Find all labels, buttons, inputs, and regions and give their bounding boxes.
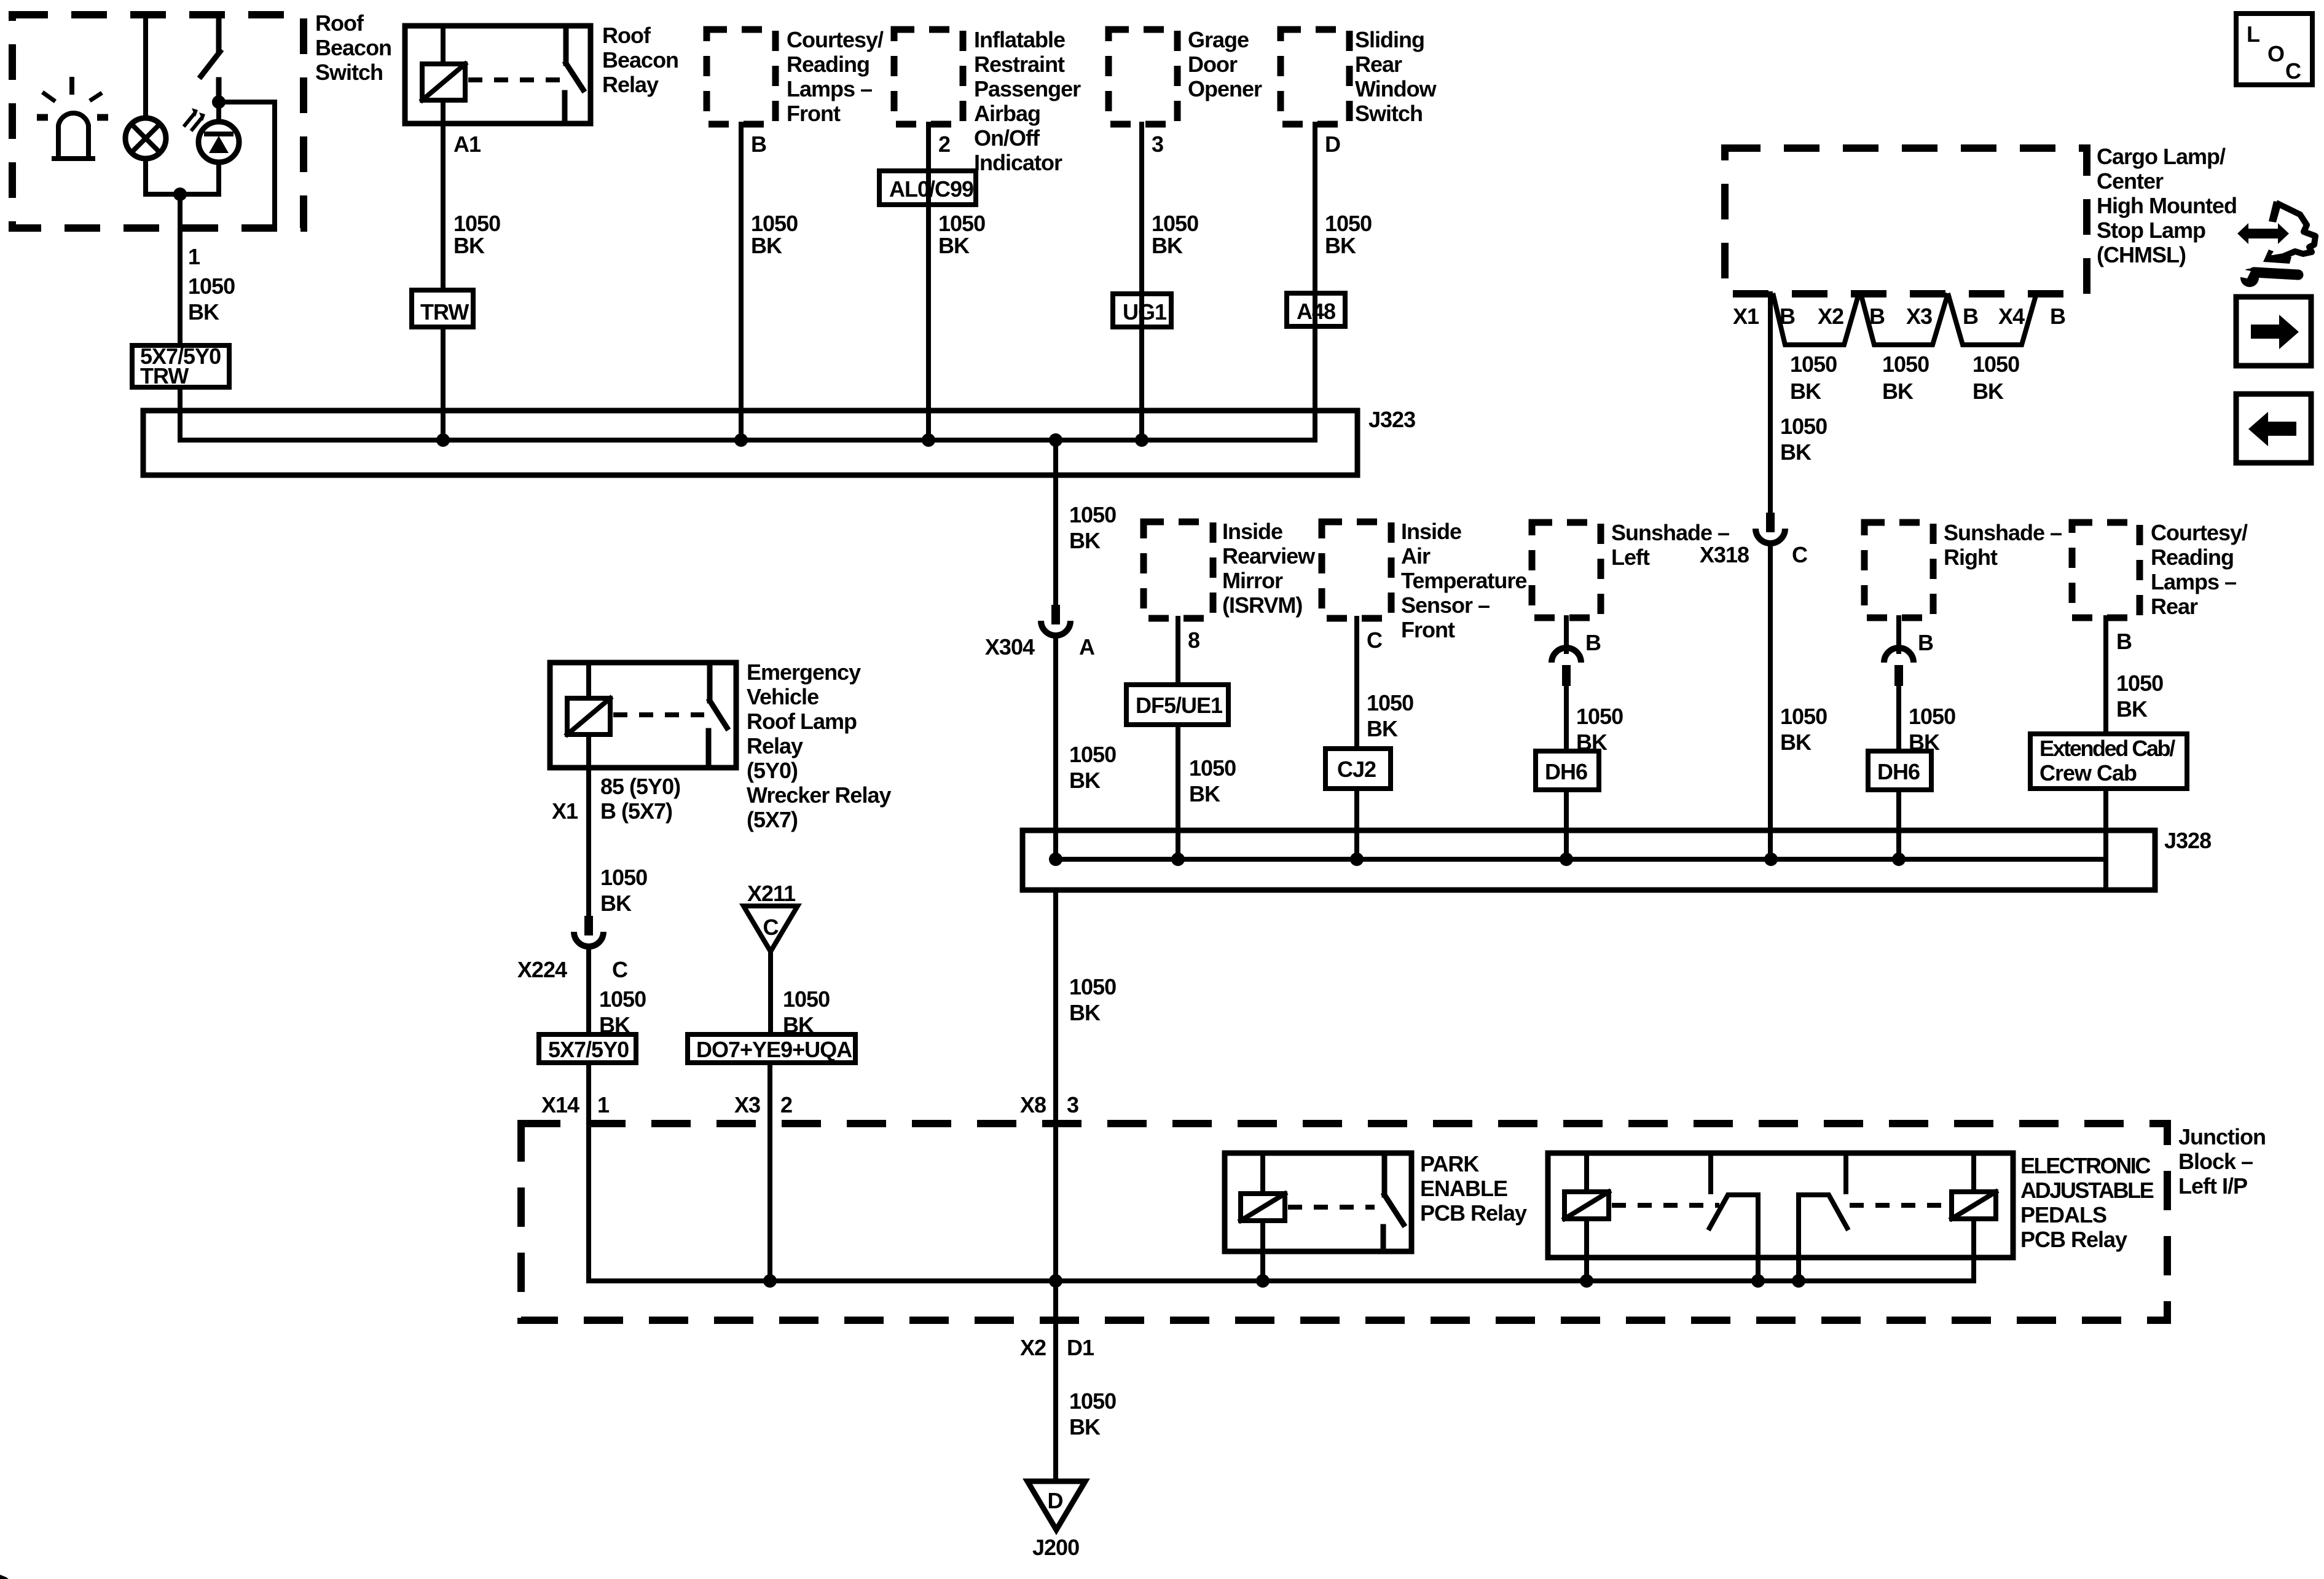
splice package box DO7+YE9+UQA — [688, 1034, 855, 1063]
svg-text:Inflatable: Inflatable — [974, 27, 1065, 52]
wire TRW to J323 — [441, 329, 446, 440]
svg-text:Inside: Inside — [1222, 519, 1282, 544]
svg-text:High Mounted: High Mounted — [2097, 193, 2237, 218]
svg-text:(CHMSL): (CHMSL) — [2097, 242, 2186, 267]
option code box UG1 — [1113, 294, 1171, 327]
svg-text:BK: BK — [600, 891, 632, 916]
wire to indicator lamp — [143, 15, 148, 118]
wire pin 85/B from relay K2 — [552, 768, 680, 916]
svg-text:1050: 1050 — [1069, 502, 1116, 527]
svg-text:Courtesy/: Courtesy/ — [787, 27, 884, 52]
connector X304 pin A — [985, 605, 1095, 660]
relay K3 coil — [1241, 1153, 1285, 1281]
svg-text:PARK: PARK — [1420, 1151, 1479, 1176]
svg-text:BK: BK — [1973, 379, 2004, 404]
svg-text:B: B — [1585, 630, 1601, 655]
svg-text:3: 3 — [1067, 1092, 1078, 1117]
svg-text:B: B — [2050, 304, 2065, 329]
relay K4 contact 2 — [1799, 1153, 1847, 1281]
svg-text:D1: D1 — [1067, 1335, 1094, 1360]
svg-text:1050: 1050 — [1325, 211, 1372, 236]
svg-text:C: C — [612, 957, 628, 982]
connector: inside air temperature sensor front — [1322, 519, 1526, 642]
wire pin B sunshade right — [1899, 618, 1933, 655]
connector: cargo lamp / CHMSL dashed enclosure — [1725, 144, 2237, 294]
svg-text:1050: 1050 — [1069, 974, 1116, 999]
svg-text:1: 1 — [188, 244, 200, 269]
svg-text:1050: 1050 — [2116, 671, 2163, 696]
node J328/X318 — [1764, 853, 1778, 866]
node J328/DH6 right — [1892, 853, 1906, 866]
connector: sliding rear window switch — [1281, 27, 1437, 126]
roof beacon switch S1 dashed enclosure — [12, 10, 391, 228]
svg-text:Switch: Switch — [315, 60, 383, 85]
svg-text:X8: X8 — [1020, 1092, 1046, 1117]
option code box DH6 (right) — [1868, 751, 1931, 790]
svg-text:B: B — [1869, 304, 1885, 329]
svg-text:X1: X1 — [552, 798, 578, 824]
svg-text:(5Y0): (5Y0) — [747, 758, 798, 783]
node J328/DF5 — [1171, 853, 1185, 866]
wire J328 to junction block pin X8-3 — [1020, 890, 1116, 1281]
J323 internal bus wire — [180, 438, 1315, 443]
svg-text:BK: BK — [1325, 233, 1356, 258]
svg-text:Rear: Rear — [1355, 52, 1402, 77]
svg-text:DF5/UE1: DF5/UE1 — [1136, 693, 1223, 718]
connector: inside rearview mirror ISRVM — [1144, 519, 1316, 618]
svg-text:1050: 1050 — [938, 211, 985, 236]
relay K2 coil-contact dashed link — [613, 712, 704, 717]
node block/X3 — [763, 1274, 777, 1288]
svg-text:X2: X2 — [1818, 304, 1843, 329]
ring terminal X211 pin C — [744, 881, 798, 951]
svg-text:B: B — [751, 132, 766, 157]
svg-text:On/Off: On/Off — [974, 125, 1040, 151]
svg-text:Extended Cab/: Extended Cab/ — [2039, 736, 2175, 761]
svg-text:Rearview: Rearview — [1222, 543, 1316, 569]
wire pin 3 garage door opener to J323 — [1142, 124, 1198, 440]
wire to junction block pin X14-1 — [541, 1063, 610, 1281]
svg-text:Reading: Reading — [2151, 545, 2234, 570]
option code box DF5/UE1 — [1126, 685, 1228, 725]
connector: inflatable restraint passenger airbag indicator — [894, 27, 1081, 175]
svg-text:Front: Front — [787, 101, 841, 126]
svg-text:BK: BK — [751, 233, 782, 258]
svg-text:1050: 1050 — [1973, 352, 2019, 377]
svg-text:Vehicle: Vehicle — [747, 684, 819, 709]
svg-text:Restraint: Restraint — [974, 52, 1065, 77]
svg-text:BK: BK — [1069, 528, 1101, 553]
wire pin 1 of S1 down to splice box — [180, 194, 235, 345]
svg-text:1050: 1050 — [1780, 414, 1827, 439]
wire pin X2-D1 to ground — [1020, 1281, 1116, 1481]
svg-text:85 (5Y0): 85 (5Y0) — [600, 774, 680, 799]
wire CJ2 to J328 — [1354, 789, 1359, 859]
svg-text:BK: BK — [1069, 1000, 1101, 1025]
svg-text:BK: BK — [1780, 439, 1812, 465]
svg-text:Airbag: Airbag — [974, 101, 1040, 126]
svg-text:Center: Center — [2097, 168, 2164, 194]
svg-text:Cargo Lamp/: Cargo Lamp/ — [2097, 144, 2226, 169]
node J328/X304 — [1049, 853, 1062, 866]
relay K1 coil-contact dashed link — [468, 77, 560, 82]
wire pin 2 airbag indicator to J323 — [928, 124, 985, 440]
svg-text:X318: X318 — [1700, 542, 1749, 567]
relay K2 contact — [709, 663, 727, 768]
LED indicator with arrows — [184, 102, 239, 162]
option code box A48 — [1287, 293, 1345, 326]
svg-text:D: D — [1048, 1488, 1063, 1513]
svg-text:X3: X3 — [1906, 304, 1932, 329]
CHMSL jumper loop B-X3 — [1861, 296, 1947, 404]
svg-text:Air: Air — [1401, 543, 1431, 569]
svg-text:B: B — [1963, 304, 1978, 329]
svg-text:BK: BK — [188, 299, 219, 325]
svg-text:Roof: Roof — [315, 10, 364, 36]
splice package box 5X7/5Y0 TRW — [132, 344, 229, 388]
wire to DH6 right — [1899, 686, 1955, 755]
svg-text:X1: X1 — [1733, 304, 1759, 329]
svg-text:C: C — [1367, 628, 1383, 653]
connector: sunshade left — [1532, 520, 1729, 618]
svg-text:Crew Cab: Crew Cab — [2039, 760, 2137, 786]
wire A1 from relay K1 to splice TRW — [443, 124, 500, 289]
svg-text:PEDALS: PEDALS — [2020, 1202, 2106, 1227]
svg-text:J200: J200 — [1032, 1535, 1079, 1560]
wire DH6 left to J328 — [1564, 790, 1569, 859]
relay K1 coil — [422, 26, 465, 124]
electronic adjustable pedals PCB relay K4 — [1548, 1153, 2154, 1258]
svg-text:3: 3 — [1152, 132, 1163, 157]
node J323/UG1 — [1135, 433, 1148, 447]
wire DH6 right to J328 — [1896, 790, 1901, 859]
svg-text:1050: 1050 — [600, 865, 647, 890]
svg-text:Sunshade –: Sunshade – — [1611, 520, 1729, 545]
svg-text:Mirror: Mirror — [1222, 568, 1283, 593]
svg-text:1050: 1050 — [1367, 690, 1413, 715]
svg-text:1050: 1050 — [1790, 352, 1837, 377]
svg-text:BK: BK — [1790, 379, 1821, 404]
wire CHMSL X1 to X318 — [1770, 294, 1827, 514]
svg-text:Temperature: Temperature — [1401, 568, 1526, 593]
wire X318 to J328 — [1770, 543, 1827, 859]
CHMSL jumper loop B-X2 — [1773, 296, 1858, 404]
svg-text:Switch: Switch — [1355, 101, 1423, 126]
svg-text:PCB Relay: PCB Relay — [1420, 1200, 1527, 1226]
svg-text:Rear: Rear — [2151, 594, 2198, 619]
option note box extended cab/crew cab — [2030, 734, 2187, 789]
svg-text:TRW: TRW — [140, 363, 189, 388]
svg-text:Stop Lamp: Stop Lamp — [2097, 218, 2205, 243]
node block/X8 — [1049, 1274, 1062, 1288]
connector X224 pin C — [517, 916, 628, 982]
splice package box TRW — [412, 290, 473, 327]
connector: sunshade right — [1864, 520, 2062, 618]
svg-text:1050: 1050 — [1189, 755, 1236, 781]
switch contact in S1 — [201, 15, 220, 102]
svg-text:Lamps –: Lamps – — [787, 76, 872, 101]
roof beacon relay K1 — [405, 23, 678, 124]
option code box CJ2 — [1325, 749, 1391, 789]
svg-text:Door: Door — [1188, 52, 1238, 77]
junction block left I/P dashed enclosure — [521, 1124, 2266, 1320]
svg-text:X2: X2 — [1020, 1335, 1046, 1360]
svg-text:Beacon: Beacon — [602, 47, 678, 73]
node block/K4 contact2 — [1792, 1274, 1805, 1288]
nav icon left arrow box — [2236, 394, 2311, 463]
stray mark bottom-left — [0, 1575, 9, 1579]
wire pin B courtesy front to J323 — [741, 124, 798, 440]
wire pin C air temp sensor — [1357, 618, 1413, 749]
svg-text:Courtesy/: Courtesy/ — [2151, 520, 2248, 545]
svg-text:5X7/5Y0: 5X7/5Y0 — [548, 1037, 629, 1062]
junction block internal ground wire — [589, 1278, 1974, 1283]
option code box AL0/C99 — [879, 171, 976, 205]
svg-text:2: 2 — [938, 132, 950, 157]
svg-text:C: C — [763, 915, 779, 940]
relay K4 right dashed link — [1850, 1203, 1949, 1208]
svg-text:2: 2 — [780, 1092, 792, 1117]
svg-text:Left I/P: Left I/P — [2178, 1173, 2247, 1199]
svg-text:Inside: Inside — [1401, 519, 1461, 544]
svg-text:1050: 1050 — [188, 274, 235, 299]
svg-text:J323: J323 — [1368, 407, 1415, 432]
svg-text:DO7+YE9+UQA: DO7+YE9+UQA — [696, 1037, 852, 1062]
splice package box 5X7/5Y0 — [539, 1034, 636, 1063]
svg-text:L: L — [2247, 22, 2259, 47]
svg-text:ADJUSTABLE: ADJUSTABLE — [2020, 1178, 2154, 1203]
svg-text:ELECTRONIC: ELECTRONIC — [2020, 1153, 2151, 1178]
J328 internal bus wire — [1055, 857, 2106, 862]
svg-text:DH6: DH6 — [1545, 759, 1587, 784]
svg-text:B (5X7): B (5X7) — [600, 798, 672, 824]
svg-text:A: A — [1079, 634, 1095, 660]
connector: grage door opener — [1109, 27, 1262, 124]
svg-text:J328: J328 — [2164, 828, 2211, 853]
svg-text:1050: 1050 — [1882, 352, 1929, 377]
wire from splice box to J323 — [178, 387, 183, 440]
svg-text:C: C — [2285, 58, 2301, 84]
nav icon right arrow box — [2236, 297, 2311, 366]
node J328/DH6 left — [1560, 853, 1573, 866]
svg-text:(5X7): (5X7) — [747, 807, 798, 832]
svg-text:Left: Left — [1611, 545, 1650, 570]
svg-text:Block –: Block – — [2178, 1149, 2253, 1174]
svg-text:TRW: TRW — [420, 299, 469, 325]
CHMSL pin labels X1 B X2 B X3 B X4 B — [1733, 304, 2065, 329]
relay K1 contact — [565, 26, 583, 124]
wire to junction block pin X3-2 — [734, 1063, 792, 1281]
svg-text:BK: BK — [1367, 716, 1398, 741]
svg-text:Roof: Roof — [602, 23, 651, 48]
svg-text:1050: 1050 — [599, 986, 646, 1012]
relay K4 contact 1 — [1710, 1153, 1758, 1281]
svg-text:PCB Relay: PCB Relay — [2020, 1227, 2127, 1252]
ground bus J323 — [143, 407, 1415, 475]
svg-text:D: D — [1325, 132, 1340, 157]
svg-text:1: 1 — [597, 1092, 610, 1117]
svg-text:Window: Window — [1355, 76, 1437, 101]
svg-text:Sliding: Sliding — [1355, 27, 1424, 52]
wire pin D sliding rear window to J323 — [1315, 124, 1372, 440]
svg-text:Reading: Reading — [787, 52, 870, 77]
connector: courtesy/reading lamps front — [707, 27, 884, 126]
svg-text:Grage: Grage — [1188, 27, 1249, 52]
svg-text:B: B — [1918, 630, 1933, 655]
svg-text:A1: A1 — [453, 132, 481, 157]
relay K4 right coil — [1952, 1153, 1996, 1281]
svg-text:ENABLE: ENABLE — [1420, 1176, 1507, 1201]
svg-text:BK: BK — [453, 233, 485, 258]
svg-text:Sensor –: Sensor – — [1401, 593, 1490, 618]
svg-text:BK: BK — [938, 233, 970, 258]
node J323/airbag — [922, 433, 935, 447]
hotlink icon (arrow/wrench) — [2236, 201, 2315, 287]
node block/K3 coil — [1256, 1274, 1270, 1288]
option code box DH6 (left) — [1536, 751, 1599, 790]
svg-text:1050: 1050 — [1909, 704, 1955, 729]
node block/K4 contact1 — [1751, 1274, 1765, 1288]
wire extended cab box through J328 — [2103, 789, 2108, 890]
svg-text:O: O — [2267, 41, 2284, 66]
svg-text:Relay: Relay — [747, 733, 803, 758]
svg-text:Roof Lamp: Roof Lamp — [747, 709, 857, 734]
svg-text:X14: X14 — [541, 1092, 579, 1117]
svg-text:Opener: Opener — [1188, 76, 1262, 101]
node J323 center tap — [1049, 433, 1062, 447]
svg-text:1050: 1050 — [1152, 211, 1198, 236]
relay K3 coil-contact dashed link — [1288, 1205, 1375, 1210]
locator icon LOC box — [2236, 14, 2312, 85]
node J323/TRW — [436, 433, 450, 447]
svg-text:Emergency: Emergency — [747, 660, 861, 685]
svg-text:1050: 1050 — [453, 211, 500, 236]
connector X318 pin C — [1700, 513, 1808, 567]
wire to DH6 left — [1566, 686, 1623, 755]
svg-text:BK: BK — [1069, 768, 1101, 793]
svg-text:X3: X3 — [734, 1092, 760, 1117]
node J323/courtesy front — [734, 433, 748, 447]
svg-text:Relay: Relay — [602, 72, 659, 97]
svg-text:DH6: DH6 — [1877, 759, 1920, 784]
svg-text:1050: 1050 — [1576, 704, 1623, 729]
wire pin B sunshade left — [1566, 618, 1601, 655]
svg-text:1050: 1050 — [1069, 1388, 1116, 1414]
svg-text:BK: BK — [1152, 233, 1183, 258]
node J328/CJ2 — [1350, 853, 1364, 866]
svg-text:Front: Front — [1401, 617, 1455, 642]
svg-text:BK: BK — [2116, 696, 2148, 722]
wire DF5/UE1 to J328 — [1178, 725, 1236, 859]
svg-text:X4: X4 — [1998, 304, 2025, 329]
svg-text:Beacon: Beacon — [315, 35, 391, 60]
svg-text:Wrecker Relay: Wrecker Relay — [747, 782, 891, 808]
CHMSL jumper loop B-X4 — [1949, 296, 2036, 404]
svg-text:BK: BK — [1882, 379, 1914, 404]
svg-text:1050: 1050 — [751, 211, 798, 236]
wire X224 to splice box — [589, 947, 646, 1038]
svg-text:Right: Right — [1944, 545, 1998, 570]
ground terminal J200 pin D — [1027, 1481, 1085, 1560]
svg-text:C: C — [1792, 542, 1808, 567]
emergency vehicle roof lamp relay K2 — [550, 660, 891, 832]
wire J323 to X304 — [1056, 440, 1116, 606]
svg-text:BK: BK — [1069, 1414, 1101, 1439]
relay K3 contact — [1383, 1153, 1403, 1251]
svg-text:BK: BK — [1189, 781, 1220, 806]
relay K4 left coil — [1564, 1153, 1609, 1281]
svg-text:AL0/C99: AL0/C99 — [889, 176, 973, 202]
relay K2 coil — [567, 663, 610, 768]
svg-text:Lamps –: Lamps – — [2151, 569, 2236, 594]
svg-text:8: 8 — [1188, 628, 1199, 653]
svg-text:BK: BK — [1780, 730, 1812, 755]
wire pin B courtesy rear — [2106, 618, 2163, 734]
svg-text:X211: X211 — [747, 881, 796, 906]
svg-text:X224: X224 — [517, 957, 567, 982]
svg-text:UG1: UG1 — [1123, 299, 1167, 325]
svg-text:A48: A48 — [1297, 299, 1335, 324]
relay K4 left dashed link — [1612, 1203, 1719, 1208]
park enable PCB relay K3 — [1225, 1151, 1527, 1251]
svg-text:Passenger: Passenger — [974, 76, 1081, 101]
connector pair on sunshade right wire — [1884, 648, 1914, 686]
svg-text:Indicator: Indicator — [974, 150, 1062, 175]
wire from switch junction to case — [219, 102, 275, 228]
svg-text:(ISRVM): (ISRVM) — [1222, 593, 1302, 618]
svg-text:1050: 1050 — [1780, 704, 1827, 729]
svg-text:Sunshade –: Sunshade – — [1944, 520, 2062, 545]
svg-text:X304: X304 — [985, 634, 1035, 660]
connector pair on sunshade left wire — [1552, 648, 1581, 686]
connector: courtesy/reading lamps rear — [2072, 520, 2248, 619]
wire X304 to J328 — [1056, 636, 1116, 859]
svg-text:1050: 1050 — [1069, 742, 1116, 767]
wire X211 to splice box — [771, 951, 830, 1038]
lamp/LED bottom wires and junction node — [146, 159, 219, 201]
svg-text:CJ2: CJ2 — [1337, 757, 1376, 782]
svg-text:1050: 1050 — [783, 986, 830, 1012]
beacon lamp icon — [37, 79, 108, 159]
indicator lamp — [125, 118, 166, 159]
svg-text:Junction: Junction — [2178, 1124, 2266, 1149]
node: switch to LED junction — [212, 95, 226, 109]
wire pin 8 ISRVM to DF5/UE1 — [1178, 618, 1199, 685]
node block/K4 coil — [1580, 1274, 1593, 1288]
ground bus J328 — [1023, 828, 2211, 890]
svg-text:B: B — [2116, 629, 2132, 654]
